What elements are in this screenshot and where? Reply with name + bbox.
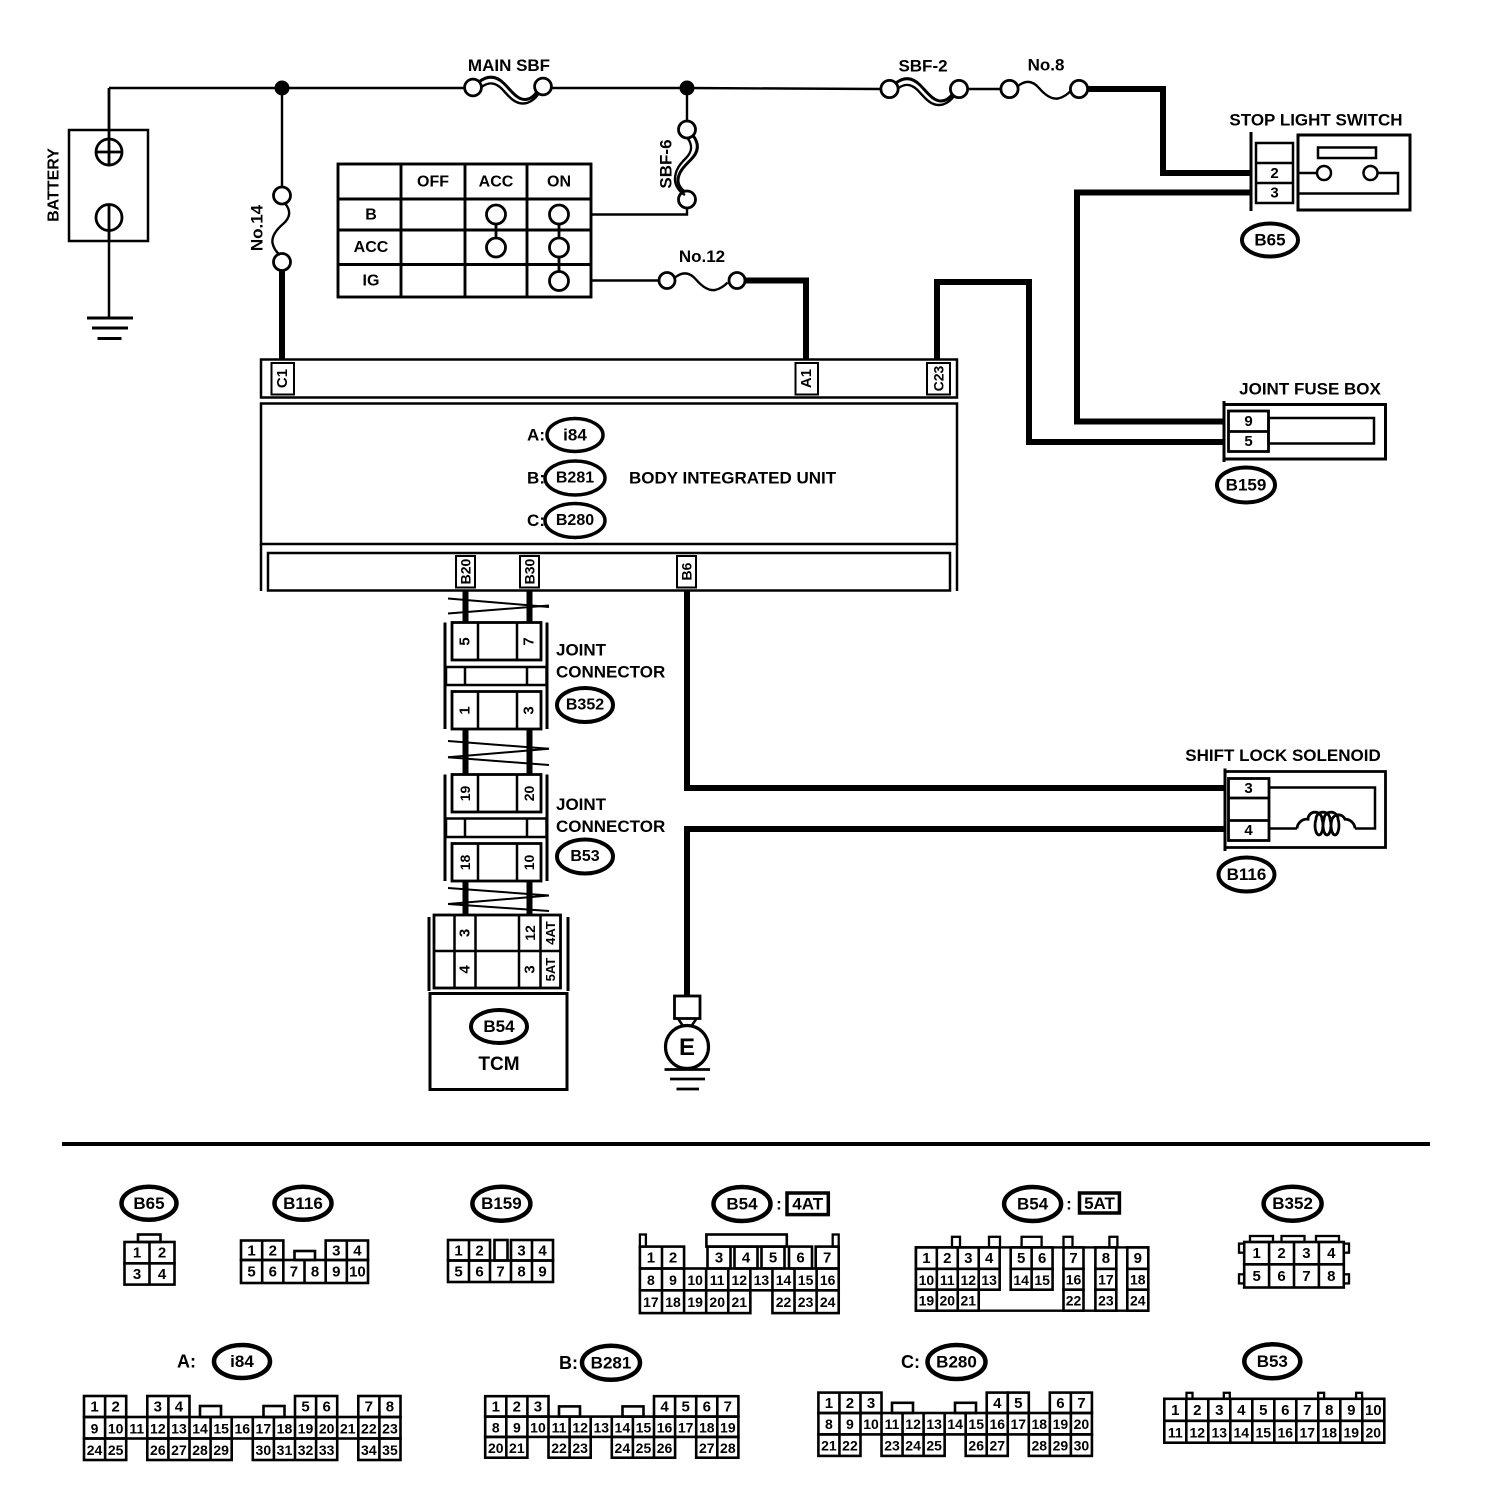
svg-text:17: 17 [1010,1416,1026,1432]
svg-text:15: 15 [1034,1272,1050,1288]
svg-text:35: 35 [382,1442,398,1458]
svg-text:JOINT FUSE BOX: JOINT FUSE BOX [1239,380,1381,399]
switch contacts ON column [550,205,569,224]
svg-text:8: 8 [825,1416,833,1432]
wire battery to node J1 [109,87,282,89]
connector label B352 [557,688,613,722]
svg-text:C:: C: [527,511,545,530]
ignition switch table [338,164,591,297]
svg-text:10: 10 [1365,1402,1382,1419]
svg-text:28: 28 [192,1442,208,1458]
svg-text:4: 4 [538,1242,547,1259]
svg-text:17: 17 [1300,1424,1316,1440]
svg-text:15: 15 [1256,1424,1272,1440]
svg-text:No.8: No.8 [1028,56,1065,75]
svg-text:B116: B116 [1227,865,1267,884]
wire node J2 to SBF-2 [687,88,881,89]
solenoid internal wiring [1269,788,1375,829]
svg-text:18: 18 [1322,1424,1338,1440]
svg-text:18: 18 [1130,1272,1146,1288]
svg-text:B54: B54 [726,1195,758,1214]
svg-text:27: 27 [699,1440,715,1456]
svg-text:5: 5 [1252,1268,1260,1285]
svg-text:1: 1 [454,1242,462,1259]
svg-text:4: 4 [158,1266,167,1283]
svg-text:9: 9 [332,1264,340,1281]
wire B6 to shift lock solenoid pin 3 [687,591,1225,789]
svg-text:23: 23 [382,1420,398,1436]
svg-text:4: 4 [457,965,474,974]
wire No.8 to stop light switch pin 2 [1087,89,1251,173]
svg-text:12: 12 [732,1272,748,1288]
svg-text:ACC: ACC [354,239,389,256]
svg-text:i84: i84 [563,426,587,445]
svg-text:B280: B280 [936,1353,977,1372]
svg-text:5: 5 [1259,1402,1267,1419]
wire No.14 to C1 [279,271,285,360]
svg-text:13: 13 [926,1416,942,1432]
joint connector B352 [444,623,447,730]
wire MAIN SBF to node J2 [552,87,688,89]
svg-text:B54: B54 [483,1017,515,1036]
svg-text:20: 20 [709,1294,725,1310]
svg-text:18: 18 [1032,1416,1048,1432]
svg-text:8: 8 [517,1263,525,1280]
svg-text:SHIFT LOCK SOLENOID: SHIFT LOCK SOLENOID [1185,746,1381,765]
svg-text:B6: B6 [679,562,695,580]
svg-text:B54: B54 [1017,1195,1049,1214]
svg-text:19: 19 [1344,1424,1360,1440]
svg-text:23: 23 [1098,1293,1114,1309]
svg-text:CONNECTOR: CONNECTOR [556,663,665,682]
twisted pair marks 1 [448,599,549,608]
connector B54 pin block [428,917,431,991]
svg-text:3: 3 [867,1395,875,1412]
node J1 [275,81,289,95]
joint connector B53 lower row [452,844,541,882]
svg-text:11: 11 [940,1272,955,1288]
svg-text:4AT: 4AT [792,1195,823,1214]
svg-text:7: 7 [724,1398,732,1415]
svg-text:B:: B: [559,1353,578,1373]
svg-text:31: 31 [277,1442,293,1458]
svg-text:IG: IG [363,273,380,290]
svg-text:8: 8 [647,1272,655,1288]
svg-text:2: 2 [846,1395,854,1412]
wire node J1 to MAIN SBF [282,87,465,89]
connector B159 pin block [1229,411,1269,452]
svg-text:29: 29 [213,1442,229,1458]
stop light switch plunger bar [1318,148,1376,159]
svg-text:22: 22 [776,1294,792,1310]
svg-text:14: 14 [947,1416,963,1432]
svg-text:4: 4 [660,1398,669,1415]
svg-text:21: 21 [509,1440,525,1456]
connector label B53 (legend) [1244,1344,1300,1378]
svg-text:16: 16 [1066,1272,1082,1288]
fuse SBF-2 [881,80,898,97]
svg-text:8: 8 [1102,1250,1110,1267]
wire B53 to TCM right [527,881,533,915]
svg-text:11: 11 [1168,1424,1183,1440]
wire No.12 to A1 [745,281,806,360]
svg-text:6: 6 [269,1264,277,1281]
svg-text:4: 4 [1237,1402,1246,1419]
twisted pair marks 2 [448,741,549,749]
svg-text:9: 9 [513,1419,521,1435]
svg-text:9: 9 [669,1272,677,1288]
svg-text:No.12: No.12 [679,247,725,266]
svg-text:B281: B281 [556,470,594,487]
svg-text:3: 3 [133,1266,141,1283]
fuse No.8 [1001,80,1018,97]
svg-text:13: 13 [754,1272,770,1288]
joint connector B53 [444,775,447,882]
svg-text:7: 7 [1077,1395,1085,1412]
svg-text:10: 10 [919,1272,935,1288]
svg-text:12: 12 [522,925,538,941]
svg-text:8: 8 [1325,1402,1333,1419]
svg-text:11: 11 [710,1272,725,1288]
svg-text:21: 21 [732,1294,748,1310]
svg-text:5: 5 [454,1263,462,1280]
svg-text:BATTERY: BATTERY [46,148,63,222]
fuse MAIN SBF [465,79,482,96]
svg-text:32: 32 [298,1442,314,1458]
svg-text:10: 10 [521,855,537,871]
body integrated unit connector band bottom [268,553,950,591]
svg-text:OFF: OFF [417,174,449,191]
svg-text:22: 22 [361,1420,377,1436]
svg-text:6: 6 [475,1263,483,1280]
wire IG row to fuse No.12 [591,279,659,281]
svg-text:9: 9 [1347,1402,1355,1419]
svg-text:2: 2 [1277,1245,1285,1262]
svg-text:4: 4 [1327,1245,1336,1262]
svg-text:1: 1 [1171,1402,1179,1419]
connector B281 pinout [559,1406,580,1416]
connector label B54 [471,1010,527,1043]
svg-text:20: 20 [488,1440,504,1456]
svg-text:20: 20 [1366,1424,1382,1440]
svg-text:7: 7 [365,1399,373,1416]
svg-text:25: 25 [926,1438,942,1454]
svg-text:2: 2 [669,1250,677,1267]
svg-text:34: 34 [361,1442,377,1458]
svg-text:5AT: 5AT [1084,1194,1115,1213]
svg-text:B20: B20 [458,558,474,584]
svg-text:6: 6 [796,1249,804,1266]
svg-text:11: 11 [552,1419,567,1435]
svg-text::: : [776,1195,782,1214]
svg-text:6: 6 [1056,1395,1064,1412]
TCM [430,994,567,1090]
svg-text:3: 3 [1302,1245,1310,1262]
svg-text:10: 10 [108,1420,124,1436]
svg-text:1: 1 [90,1399,98,1416]
svg-text:18: 18 [457,855,473,871]
svg-text:12: 12 [905,1416,921,1432]
twisted pair marks 3 [448,888,549,896]
svg-text:14: 14 [192,1420,208,1436]
wire stop light switch pin 3 to joint fuse box pin 9 [1077,193,1251,422]
svg-text:23: 23 [884,1438,900,1454]
svg-text:1: 1 [825,1395,833,1412]
svg-text:17: 17 [256,1420,272,1436]
svg-text:7: 7 [1303,1402,1311,1419]
svg-text:7: 7 [1302,1268,1310,1285]
battery [69,130,148,241]
separator line [62,1142,1430,1146]
svg-text:4: 4 [353,1242,362,1259]
svg-text:B159: B159 [481,1194,522,1213]
svg-text:13: 13 [171,1420,187,1436]
svg-text:25: 25 [108,1442,124,1458]
svg-text:6: 6 [1038,1250,1046,1267]
svg-text:5: 5 [769,1249,777,1266]
svg-text:24: 24 [615,1440,631,1456]
svg-text:14: 14 [1234,1424,1250,1440]
svg-text:4: 4 [742,1249,751,1266]
svg-text:B352: B352 [566,697,604,714]
connector B54 5AT pinout [916,1247,1148,1310]
svg-text:3: 3 [715,1249,723,1266]
wire battery to ground [108,241,111,318]
svg-text:16: 16 [989,1416,1005,1432]
svg-text:15: 15 [798,1272,814,1288]
fuse No.14 [281,95,283,188]
svg-text:20: 20 [521,786,537,802]
connector label box C1 [272,363,295,395]
connector B65 pinout [138,1235,161,1243]
svg-text:1: 1 [457,706,474,714]
svg-text:3: 3 [517,1242,525,1259]
svg-text:CONNECTOR: CONNECTOR [556,817,665,836]
svg-text:7: 7 [521,637,538,645]
svg-text:9: 9 [1134,1250,1142,1267]
svg-text:7: 7 [290,1264,298,1281]
svg-text:28: 28 [1032,1438,1048,1454]
svg-text:7: 7 [823,1249,831,1266]
svg-text:8: 8 [386,1399,394,1416]
connector label B116 (legend) [275,1187,332,1220]
ground E [675,996,701,1019]
svg-text:21: 21 [340,1420,356,1436]
svg-text:26: 26 [968,1438,984,1454]
svg-text:B: B [365,207,377,224]
svg-text:16: 16 [657,1419,673,1435]
svg-text:28: 28 [720,1440,736,1456]
battery - terminal [96,205,122,231]
connector label B65 [1242,224,1298,257]
svg-text:2: 2 [513,1398,521,1415]
svg-text:9: 9 [1244,413,1252,430]
svg-text::: : [1066,1195,1072,1214]
svg-text:9: 9 [91,1420,99,1436]
svg-text:11: 11 [129,1420,144,1436]
svg-text:12: 12 [150,1420,166,1436]
connector B116 pin block [1229,779,1270,841]
svg-text:3: 3 [457,929,474,937]
svg-text:1: 1 [647,1250,655,1267]
svg-text:1: 1 [133,1245,141,1262]
svg-text:10: 10 [530,1419,546,1435]
svg-text:4: 4 [175,1399,184,1416]
svg-text:15: 15 [213,1420,229,1436]
wire B53 to TCM left [463,881,469,915]
svg-text:24: 24 [87,1442,103,1458]
body integrated unit box [261,404,957,545]
connector label box B20 [456,556,475,588]
svg-text:29: 29 [1053,1438,1069,1454]
connector B280 pinout [892,1403,913,1413]
connector label B53 [557,840,613,874]
svg-text:19: 19 [720,1419,736,1435]
svg-text:21: 21 [960,1293,976,1309]
svg-text:6: 6 [703,1398,711,1415]
svg-text:3: 3 [154,1399,162,1416]
joint connector B352 lower row [452,692,541,730]
solenoid coil [1297,812,1355,835]
switch contacts ACC column [487,205,506,224]
svg-text:B:: B: [527,469,545,488]
svg-text:B53: B53 [570,848,599,865]
svg-text:3: 3 [1244,780,1252,797]
svg-text:7: 7 [1069,1250,1077,1267]
svg-text:3: 3 [522,965,539,973]
svg-text:24: 24 [905,1438,921,1454]
svg-text:30: 30 [256,1442,272,1458]
svg-text:12: 12 [1190,1424,1206,1440]
svg-text:18: 18 [699,1419,715,1435]
joint connector B352 bus strip [446,667,547,685]
connector label B352 (legend) [1264,1187,1322,1221]
svg-text:17: 17 [643,1294,659,1310]
svg-text:24: 24 [820,1294,836,1310]
svg-text:2: 2 [1193,1402,1201,1419]
connector label B65 (legend) [122,1187,177,1220]
connector label B116 [1219,858,1275,892]
svg-text:B65: B65 [133,1194,164,1213]
svg-text:30: 30 [1074,1438,1090,1454]
svg-text:6: 6 [1281,1402,1289,1419]
svg-text:23: 23 [798,1294,814,1310]
fuse No.12 [659,273,675,289]
svg-text:19: 19 [298,1420,314,1436]
svg-text:5: 5 [681,1398,689,1415]
svg-text:9: 9 [538,1263,546,1280]
svg-text:22: 22 [1066,1293,1082,1309]
connector label box C23 [927,363,950,395]
svg-text:ACC: ACC [479,174,514,191]
svg-text:9: 9 [846,1416,854,1432]
svg-text:B280: B280 [556,512,594,529]
svg-text:5: 5 [457,637,474,645]
svg-text:10: 10 [863,1416,879,1432]
svg-text:14: 14 [776,1272,792,1288]
ground (battery) [87,317,133,320]
wire B352 to B53 left [463,729,469,775]
svg-text:5: 5 [1017,1250,1025,1267]
svg-text:14: 14 [1013,1272,1029,1288]
wire B352 to B53 right [527,729,533,775]
connector label box A1 [796,363,819,395]
svg-text:22: 22 [842,1438,858,1454]
node J2 [680,81,694,95]
svg-text:17: 17 [678,1419,694,1435]
wire SBF-2 to No.8 [968,88,1002,90]
svg-text:1: 1 [922,1250,930,1267]
svg-text:STOP LIGHT SWITCH: STOP LIGHT SWITCH [1229,111,1402,130]
svg-text:16: 16 [234,1420,250,1436]
svg-text:4: 4 [993,1395,1002,1412]
joint fuse box bus bar [1269,418,1375,444]
svg-text:B116: B116 [283,1194,323,1213]
connector B53 pinout [1187,1393,1193,1399]
svg-text:16: 16 [1278,1424,1294,1440]
connector B352 pinout [1250,1236,1273,1242]
svg-text:12: 12 [960,1272,976,1288]
connector B65 pin block [1250,132,1253,211]
svg-text:26: 26 [657,1440,673,1456]
wire shift lock solenoid pin 4 to ground E [687,829,1225,996]
connector label B54 : 4AT (legend) [714,1187,771,1221]
wire B20 to joint connector [463,591,469,623]
svg-text:19: 19 [687,1294,703,1310]
svg-text:10: 10 [687,1272,703,1288]
svg-text:ON: ON [547,174,571,191]
svg-text:15: 15 [636,1419,652,1435]
connector B54 4AT pinout [640,1235,646,1247]
wire B30 to joint connector [527,591,533,623]
svg-text:26: 26 [150,1442,166,1458]
svg-text:8: 8 [311,1264,319,1281]
svg-text:2: 2 [1270,165,1278,182]
svg-text:5: 5 [1014,1395,1022,1412]
svg-text:4: 4 [1244,822,1253,839]
svg-text:6: 6 [322,1399,330,1416]
svg-text:2: 2 [158,1245,166,1262]
svg-text:27: 27 [989,1438,1005,1454]
connector label B159 (legend) [472,1187,530,1221]
connector label box B6 [677,556,696,588]
svg-text:24: 24 [1130,1293,1146,1309]
svg-text:6: 6 [1277,1268,1285,1285]
svg-text:BODY INTEGRATED UNIT: BODY INTEGRATED UNIT [629,469,837,488]
body integrated unit connector band top [261,360,957,398]
joint connector B53 bus strip [446,819,547,838]
svg-text:MAIN SBF: MAIN SBF [468,56,550,75]
svg-text:25: 25 [636,1440,652,1456]
svg-text:23: 23 [572,1440,588,1456]
svg-text:5AT: 5AT [543,958,558,982]
svg-text:B281: B281 [591,1353,632,1372]
svg-text:13: 13 [593,1419,609,1435]
svg-text:3: 3 [1270,185,1278,202]
svg-text:4: 4 [985,1250,994,1267]
svg-text:19: 19 [457,786,473,802]
svg-text:13: 13 [1212,1424,1228,1440]
wire C23 to joint fuse box pin 5 [937,282,1224,442]
svg-text:18: 18 [665,1294,681,1310]
svg-text:B159: B159 [1226,476,1267,495]
wire SBF-6 to ignition switch B row [591,208,687,215]
fuse SBF-6 [686,95,688,122]
svg-text:15: 15 [968,1416,984,1432]
svg-text:19: 19 [1053,1416,1069,1432]
connector label B54 : 5AT (legend) [1004,1187,1061,1221]
svg-text:8: 8 [492,1419,500,1435]
